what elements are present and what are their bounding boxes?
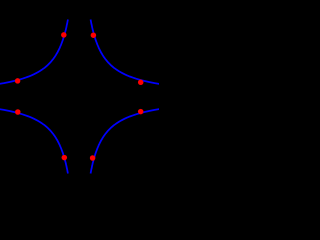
hyperbola branch bottom-left xyxy=(0,109,68,174)
data point marker TR xyxy=(91,32,97,38)
data point marker LL xyxy=(15,109,21,115)
data point marker RL xyxy=(138,109,144,115)
data point marker TL xyxy=(61,32,67,38)
hyperbola branch bottom-right xyxy=(91,109,162,174)
data point marker BL xyxy=(62,155,68,161)
hyperbola branch top-left xyxy=(0,20,68,85)
data point marker LU xyxy=(15,78,21,84)
data point marker BR xyxy=(90,155,96,161)
data point marker RU xyxy=(138,80,144,86)
hyperbola branch top-right xyxy=(91,20,162,85)
